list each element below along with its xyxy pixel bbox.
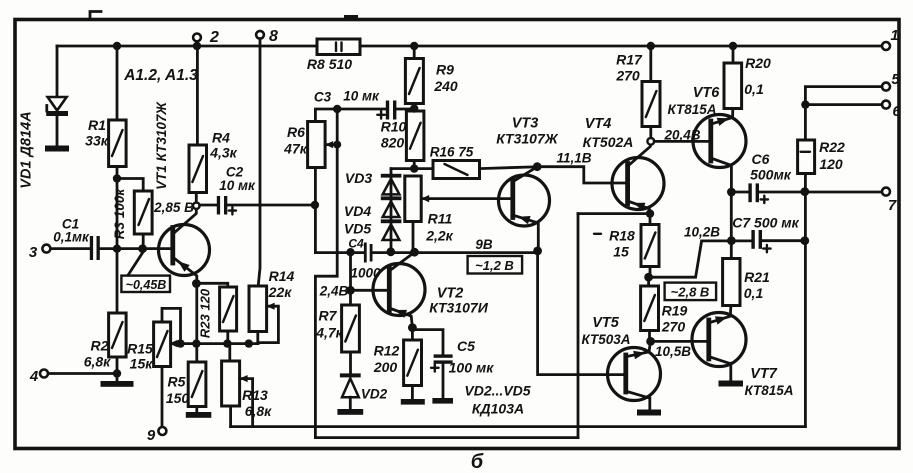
svg-text:150: 150 <box>166 390 190 406</box>
svg-text:VD3: VD3 <box>345 170 372 186</box>
wire to VT2 base <box>349 252 352 305</box>
resistor R10 820 <box>406 111 424 161</box>
diode stack VD3 VD4 VD5 <box>390 169 393 252</box>
capacitor C3 10mk <box>386 101 389 120</box>
terminal 9 <box>158 427 166 435</box>
svg-text:VT5: VT5 <box>592 315 620 331</box>
svg-text:VT7: VT7 <box>750 366 778 382</box>
svg-text:R16 75: R16 75 <box>430 145 474 160</box>
wire to 10,2V node <box>649 241 752 277</box>
svg-text:7: 7 <box>888 197 897 214</box>
node rail-terminal2 <box>193 42 201 50</box>
svg-text:4,7к: 4,7к <box>315 325 343 341</box>
wiper R6 <box>327 109 338 145</box>
transistor VT3 KT3107Zh <box>499 175 550 226</box>
svg-text:0,1: 0,1 <box>744 285 764 301</box>
svg-text:КТ503А: КТ503А <box>582 332 631 347</box>
node rail-R9 <box>410 42 418 50</box>
svg-text:10 мк: 10 мк <box>343 89 380 104</box>
node C2-R6 <box>311 201 319 209</box>
svg-text:8: 8 <box>269 28 278 45</box>
resistor R13 6,8k <box>228 344 231 361</box>
svg-text:200: 200 <box>373 359 398 375</box>
wiper R14 <box>258 306 279 342</box>
svg-text:2,85 В: 2,85 В <box>153 200 194 215</box>
wire VT3 to VT4 base <box>537 167 627 183</box>
svg-text:C7 500 мк: C7 500 мк <box>732 215 799 231</box>
svg-text:R19: R19 <box>662 303 688 319</box>
svg-text:C6: C6 <box>752 151 770 167</box>
svg-text:R13: R13 <box>242 387 268 403</box>
svg-text:10,5В: 10,5В <box>655 344 691 359</box>
wire top rail left <box>57 45 317 48</box>
node bridge <box>176 339 184 347</box>
svg-text:VD2: VD2 <box>361 387 388 402</box>
transistor VT7 KT815A <box>692 313 746 367</box>
frame blob artifact top-middle <box>344 15 358 20</box>
svg-text:R4: R4 <box>212 130 230 146</box>
svg-text:VT3: VT3 <box>512 116 539 132</box>
svg-text:R23 120: R23 120 <box>198 288 213 338</box>
resistor R14 22k <box>249 286 267 332</box>
svg-text:R3 100к: R3 100к <box>112 188 127 240</box>
svg-text:VD5: VD5 <box>344 221 371 237</box>
wire feedback bottom <box>231 425 806 428</box>
wire divider vertical <box>116 179 119 314</box>
wire terminal4 to ground <box>48 372 117 375</box>
svg-text:R14: R14 <box>269 268 295 284</box>
node C3-R9R10 <box>410 104 418 112</box>
resistor R23 120 <box>220 287 237 331</box>
svg-text:33к: 33к <box>85 133 109 149</box>
wire VT7 base <box>651 340 709 343</box>
capacitor C4 1000 <box>364 243 367 263</box>
node 10,5V <box>646 337 655 346</box>
node VT2 collector <box>410 248 419 257</box>
svg-text:R12: R12 <box>374 343 400 359</box>
node VT4 collector measurement point <box>647 138 654 145</box>
svg-text:5: 5 <box>891 71 900 88</box>
svg-text:15к: 15к <box>130 356 154 372</box>
ground VT5 <box>637 410 661 416</box>
ground C5 <box>432 398 453 404</box>
svg-text:500мк: 500мк <box>750 167 792 183</box>
terminal 3 <box>42 245 50 253</box>
svg-text:820: 820 <box>381 135 405 151</box>
node rail-R17 <box>647 42 655 50</box>
svg-text:R2: R2 <box>91 338 109 354</box>
voltage box ~1,2V <box>468 256 522 274</box>
svg-text:R10: R10 <box>381 119 407 135</box>
svg-text:VD4: VD4 <box>344 203 371 219</box>
transistor VT1 KT3107Zh <box>159 225 210 276</box>
wiper R11 to VT3 base <box>421 197 512 200</box>
diode VD2 <box>340 373 361 377</box>
node R1-R3 <box>113 174 121 182</box>
svg-text:4,3к: 4,3к <box>209 145 237 161</box>
resistor R9 240 <box>413 46 416 59</box>
svg-text:VD1 Д814А: VD1 Д814А <box>19 111 35 188</box>
capacitor C1 0,1mk <box>90 236 93 260</box>
terminal 5 <box>882 83 890 91</box>
wire bottom link 437 <box>315 436 578 439</box>
svg-text:R8 510: R8 510 <box>307 56 352 72</box>
wire R22 down to feedback <box>804 174 807 427</box>
svg-text:6,8к: 6,8к <box>245 403 272 419</box>
wire 9V down to VT5 base <box>538 251 626 375</box>
voltage box ~2,8V <box>665 283 717 301</box>
capacitor C2 10mk <box>200 204 217 207</box>
svg-text:2,4В: 2,4В <box>319 284 349 299</box>
svg-text:270: 270 <box>615 68 640 84</box>
terminal 7 <box>882 188 890 196</box>
ground VD2 <box>337 409 363 415</box>
svg-text:0,1: 0,1 <box>744 81 764 97</box>
wire output left vertical <box>730 192 733 259</box>
node VT2 emitter <box>408 323 417 332</box>
svg-text:VD2...VD5: VD2...VD5 <box>464 383 530 399</box>
ground VT7 <box>719 381 744 387</box>
terminal 6 <box>882 101 890 109</box>
resistor R22 120 <box>798 140 815 174</box>
resistor R17 270 <box>649 46 652 138</box>
zener VD1 Д814А <box>56 46 59 97</box>
wire right mid vertical <box>577 214 580 438</box>
resistor R7 4,7k <box>342 305 360 352</box>
wire emitter to R23 <box>196 283 227 287</box>
svg-text:VT4: VT4 <box>585 116 612 132</box>
wire terminal8 to R14 <box>258 39 260 286</box>
svg-text:9: 9 <box>147 427 156 444</box>
node VD5 <box>386 247 395 256</box>
resistor R21 0,1 <box>723 259 740 306</box>
svg-text:R7: R7 <box>319 308 338 324</box>
wiper R13 <box>240 379 253 427</box>
node 9V-VT3 <box>533 247 542 256</box>
node R23 <box>223 339 231 347</box>
terminal 1 <box>882 42 890 50</box>
wire emitter bus y343 <box>171 342 258 345</box>
svg-text:1: 1 <box>890 27 898 44</box>
node C7 right <box>800 236 809 245</box>
svg-text:270: 270 <box>661 319 686 335</box>
frame tick artifact top-left <box>90 12 101 19</box>
svg-text:VT6: VT6 <box>693 85 721 101</box>
svg-text:б: б <box>471 451 484 473</box>
wire wiper jog down <box>315 145 337 438</box>
svg-text:R11: R11 <box>428 211 453 227</box>
node C4 branch <box>346 248 354 256</box>
resistor R18 15 <box>649 214 652 278</box>
svg-text:C4: C4 <box>348 237 364 251</box>
wires terminals 5 6 to R22 <box>805 87 882 105</box>
wire VT1 emitter down <box>195 284 198 344</box>
svg-text:~0,45В: ~0,45В <box>126 278 167 292</box>
node rail-R1 <box>113 42 121 50</box>
capacitor C5 100mk <box>412 330 443 355</box>
svg-text:КТ815А: КТ815А <box>668 102 717 117</box>
node VD3-R10 <box>410 164 418 172</box>
wire R1 to R3 <box>117 179 143 192</box>
capacitor C7 500mk <box>751 230 754 249</box>
resistor R1 33k <box>116 46 119 179</box>
node R2-gnd <box>113 369 121 377</box>
wire left mid vertical upper <box>314 168 317 253</box>
svg-text:3: 3 <box>29 244 38 261</box>
terminal 2 <box>193 34 201 42</box>
node R3-base <box>138 244 147 253</box>
wire node 168 <box>391 167 433 170</box>
resistor R6 47k <box>308 122 326 168</box>
svg-text:R18: R18 <box>609 228 635 244</box>
resistor R8 510 <box>317 39 360 55</box>
node output-7 <box>800 187 809 196</box>
node wiper <box>333 105 341 113</box>
node emitter <box>192 279 201 288</box>
node R18-R19 <box>644 273 653 282</box>
node VT2 base <box>346 286 355 295</box>
svg-text:R21: R21 <box>744 269 770 285</box>
terminal 4 <box>40 370 48 378</box>
svg-text:R17: R17 <box>616 52 643 68</box>
resistor R4 4,3k <box>196 46 199 145</box>
wire 9V bus <box>315 251 537 254</box>
resistor R12 200 <box>411 328 414 340</box>
ground R12 <box>401 399 425 405</box>
wire C1 to VT1 base <box>100 247 173 250</box>
node C7 left <box>727 236 736 245</box>
svg-text:A1.2, A1.3: A1.2, A1.3 <box>123 67 198 84</box>
transistor VT4 KT502A <box>612 158 664 210</box>
svg-text:11,1В: 11,1В <box>556 151 591 166</box>
ground VD1 <box>45 146 69 152</box>
resistor R20 0,1 <box>732 46 735 63</box>
svg-text:КТ502А: КТ502А <box>583 134 634 150</box>
wire R6 top to C3 <box>315 109 385 122</box>
svg-text:R22: R22 <box>819 139 845 155</box>
ground R2 <box>101 381 134 387</box>
svg-text:9В: 9В <box>475 237 493 252</box>
svg-text:КД103А: КД103А <box>472 401 524 417</box>
svg-text:10 мк: 10 мк <box>219 178 256 193</box>
svg-text:2,2к: 2,2к <box>425 228 453 244</box>
svg-text:0,1мк: 0,1мк <box>53 230 90 245</box>
svg-text:15: 15 <box>613 244 629 260</box>
svg-text:~1,2 В: ~1,2 В <box>475 258 514 273</box>
transistor VT2 KT3107I <box>373 264 425 316</box>
svg-text:КТ3107Ж: КТ3107Ж <box>496 131 558 147</box>
svg-text:КТ3107И: КТ3107И <box>429 300 488 316</box>
node VT3 collector <box>533 162 542 171</box>
svg-text:100 мк: 100 мк <box>449 360 495 376</box>
svg-text:6: 6 <box>892 103 901 120</box>
svg-text:47к: 47к <box>283 141 308 157</box>
svg-text:22к: 22к <box>268 284 293 300</box>
svg-text:R20: R20 <box>745 55 771 71</box>
node rail-R20 <box>729 42 737 50</box>
resistor R19 270 <box>647 277 650 286</box>
svg-text:R6: R6 <box>287 124 305 140</box>
wire terminal3 to C1 <box>50 247 89 250</box>
svg-text:6,8к: 6,8к <box>84 354 111 370</box>
wire VT4 emitter <box>578 212 650 215</box>
resistor R5 150 <box>195 344 198 362</box>
node R14 <box>245 339 253 347</box>
node R5 <box>192 339 200 347</box>
resistor R2 6,8k <box>109 313 127 357</box>
svg-text:240: 240 <box>433 78 458 94</box>
svg-text:4: 4 <box>29 368 39 385</box>
node C6 left <box>727 188 736 197</box>
svg-text:C5: C5 <box>457 338 475 354</box>
svg-text:VT1 КТ3107Ж: VT1 КТ3107Ж <box>154 101 169 190</box>
capacitor C6 500mk <box>731 191 748 194</box>
svg-text:R1: R1 <box>88 117 106 133</box>
svg-text:R5: R5 <box>168 374 186 390</box>
resistor R15 15k with bridge <box>162 308 181 343</box>
wire top rail right <box>360 45 882 48</box>
terminal 8 <box>256 31 264 39</box>
resistor R16 75 <box>433 161 480 179</box>
resistor R11 2,2k <box>412 222 415 251</box>
svg-text:~2,8 В: ~2,8 В <box>671 285 710 300</box>
svg-text:КТ815А: КТ815А <box>745 383 794 398</box>
node divider-base <box>113 245 121 253</box>
wire C2 to R6 node <box>227 204 314 207</box>
node VT4 emitter <box>646 209 654 217</box>
svg-text:C3: C3 <box>314 90 332 105</box>
resistor R3 100k <box>134 191 152 234</box>
svg-text:R15: R15 <box>127 341 153 357</box>
svg-text:120: 120 <box>819 156 843 172</box>
voltage box ~0,45V <box>128 252 144 276</box>
svg-text:R9: R9 <box>436 62 454 78</box>
svg-text:2: 2 <box>209 29 219 46</box>
svg-text:10,2В: 10,2В <box>684 225 720 240</box>
transistor VT5 KT503A <box>608 348 661 401</box>
ground R5 <box>186 412 212 418</box>
transistor VT6 KT815A <box>693 115 746 168</box>
